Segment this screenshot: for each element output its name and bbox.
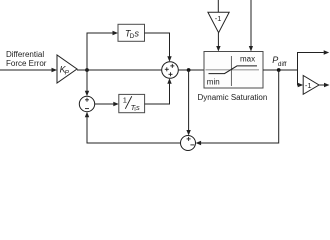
node Pdiff xyxy=(277,68,281,72)
label: Differential Force Error xyxy=(6,50,47,68)
wire: node B down to summer S3 xyxy=(186,70,190,136)
wire: TDs out to summer S1 top xyxy=(145,33,172,62)
summer S1 (central, + + +) xyxy=(162,62,179,79)
label Pdiff xyxy=(272,55,286,68)
wire: saturation output xyxy=(263,69,298,71)
wire: node A down to summer S2 xyxy=(85,70,89,96)
svg-text:-1: -1 xyxy=(305,81,312,90)
node B (pre-saturation tap) xyxy=(187,68,191,72)
summer S3 (bottom, + and -) xyxy=(181,136,196,151)
svg-text:Differential: Differential xyxy=(6,50,44,59)
summer S2 (left, + over -) xyxy=(79,96,94,111)
svg-text:P: P xyxy=(65,69,70,76)
svg-text:s: s xyxy=(135,28,140,38)
wire: integrator out up to S1 bottom xyxy=(145,78,172,104)
limit input line 2 (from top edge, max) xyxy=(249,0,253,52)
saturation block xyxy=(204,52,263,89)
svg-text:max: max xyxy=(240,54,255,63)
wire: -1 to saturation min input xyxy=(216,33,220,52)
wire: S1 to saturation xyxy=(178,69,204,71)
wire: S2 to integrator block xyxy=(95,102,119,106)
svg-text:diff: diff xyxy=(278,61,287,68)
inverter triangle -1 (right) xyxy=(303,76,319,95)
wire: upper output branch xyxy=(298,50,330,70)
wire: inverter output xyxy=(319,83,330,87)
block 1/TIs (integrator) xyxy=(119,94,145,113)
svg-text:-1: -1 xyxy=(215,14,222,23)
wire: KP tip to summer S1 xyxy=(77,69,162,71)
svg-text:Force Error: Force Error xyxy=(6,59,47,68)
node A (after KP) xyxy=(85,68,89,72)
wire: node A up to derivative block xyxy=(87,31,118,70)
svg-text:min: min xyxy=(207,78,220,87)
limit input line 1 (from top edge) xyxy=(217,0,219,12)
svg-text:1: 1 xyxy=(123,96,127,105)
gain triangle KP xyxy=(57,55,77,83)
block TDs (derivative) xyxy=(118,24,145,41)
svg-text:s: s xyxy=(136,103,140,112)
svg-text:Dynamic Saturation: Dynamic Saturation xyxy=(198,93,268,102)
wire: Pdiff feedback down and left to S3 xyxy=(196,70,279,145)
inverter triangle -1 (top) xyxy=(208,12,229,33)
wire: lower branch to inverter xyxy=(298,70,304,87)
wire: S3 out left and up to S2 bottom xyxy=(85,112,181,143)
wire: input from left edge xyxy=(0,68,57,72)
